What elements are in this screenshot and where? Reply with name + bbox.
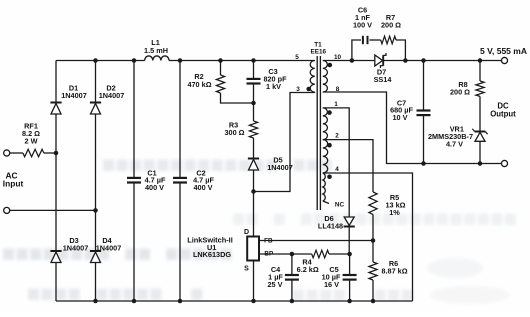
- svg-text:1N4007: 1N4007: [61, 91, 87, 100]
- transformer T1 EE16 label: [310, 41, 326, 55]
- svg-text:470 kΩ: 470 kΩ: [187, 80, 211, 89]
- junction D4 / bottom rail: [93, 299, 98, 304]
- junction C4 / bottom rail: [290, 299, 295, 304]
- svg-text:NC: NC: [335, 202, 345, 209]
- svg-text:Input: Input: [3, 179, 24, 189]
- svg-text:EE16: EE16: [310, 48, 326, 55]
- pin label 1: [334, 101, 338, 108]
- wire AC line to RF1: [10, 152, 23, 154]
- label NC: [335, 202, 345, 209]
- transformer primary winding pins 5-3: [310, 61, 315, 93]
- wire RF1 to bridge node A: [44, 152, 56, 154]
- wire U1 S pin to bottom rail: [253, 261, 255, 302]
- svg-text:5 V, 555 mA: 5 V, 555 mA: [480, 46, 527, 56]
- wire C4 top: [291, 254, 293, 275]
- wire bottom rail: [56, 300, 413, 302]
- primary phasing dot (pin 3 side): [306, 87, 311, 92]
- svg-text:200 Ω: 200 Ω: [450, 88, 470, 97]
- node FB divider (R5/R6): [371, 238, 376, 243]
- node clamp (R2/C3/R3): [251, 101, 256, 106]
- svg-text:1N4007: 1N4007: [99, 91, 125, 100]
- pin label 4: [335, 166, 339, 173]
- junction U1 S / bottom rail: [251, 299, 256, 304]
- winding 4-NC phasing dot: [327, 175, 332, 180]
- svg-text:25 V: 25 V: [267, 280, 282, 289]
- junction C2 / bottom rail: [178, 299, 183, 304]
- inductor L1 1.5 mH: [144, 38, 169, 61]
- wire pin 1 to D6 anode: [323, 108, 349, 217]
- diode D5 1N4007: [248, 155, 293, 172]
- transformer winding pin 4-NC: [323, 173, 325, 201]
- wire clamp node to R3: [253, 103, 255, 121]
- wire D2 cathode to top rail: [95, 61, 97, 102]
- svg-text:1.5 mH: 1.5 mH: [144, 46, 168, 55]
- wire R3 to D5 cathode: [253, 138, 255, 158]
- wire R4 to bias node: [329, 253, 350, 255]
- junction R6 / bottom rail: [371, 299, 376, 304]
- svg-text:400 V: 400 V: [145, 183, 164, 192]
- wire C4 node to R4: [292, 253, 312, 255]
- wire VR1 anode to return rail: [479, 141, 481, 163]
- resistor R5 13 kohm 1%: [369, 192, 406, 217]
- wire R2 top: [220, 61, 222, 76]
- svg-text:S: S: [244, 265, 249, 272]
- junction C3 / top rail: [251, 58, 256, 63]
- svg-text:1%: 1%: [389, 208, 400, 217]
- wire C7 bottom: [423, 115, 425, 163]
- bias winding phasing dot (pin 1 side): [327, 110, 332, 115]
- wire pin 10 to D7 anode: [323, 60, 375, 62]
- svg-text:4.7 V: 4.7 V: [446, 140, 463, 149]
- node A (AC line / D1-D3 junction): [54, 151, 59, 156]
- diode D2 1N4007: [90, 83, 124, 114]
- wire C7 top: [423, 61, 425, 111]
- wire D3 anode to bottom rail: [55, 263, 57, 302]
- wire C1 top: [133, 61, 135, 178]
- output terminal positive: [501, 57, 507, 63]
- wire AC neutral to bridge node B: [10, 209, 96, 211]
- wire U1 BP to C4: [259, 253, 292, 255]
- wire D7 cathode to output+: [384, 60, 502, 62]
- capacitor C6 1 nF 100 V: [353, 5, 372, 44]
- junction C7 / output+ rail: [421, 58, 426, 63]
- wire R8 top: [479, 61, 481, 82]
- wire R5 to FB node: [372, 214, 374, 240]
- svg-text:SS14: SS14: [374, 75, 393, 84]
- wire R8 to VR1 cathode: [479, 96, 481, 130]
- pin label 3: [296, 86, 300, 93]
- wire D5 anode to drain node: [253, 170, 255, 192]
- wire C2 bottom: [179, 183, 181, 302]
- label 5 V 555 mA: [480, 46, 527, 56]
- capacitor C5 10 uF 16 V: [322, 265, 357, 289]
- wire C3 bottom to clamp node: [253, 84, 255, 104]
- resistor R4 6.2 kohm: [297, 250, 329, 274]
- svg-text:LNK613DG: LNK613DG: [193, 250, 231, 259]
- svg-text:8.87 kΩ: 8.87 kΩ: [381, 267, 407, 276]
- wire transformer pin 3 jog to drain node: [254, 93, 315, 192]
- junction C4 / BP wire: [290, 252, 295, 257]
- wire top rail from L1 to transformer pin 5: [169, 60, 315, 62]
- snubber loop wire (right riser): [396, 40, 405, 61]
- svg-text:400 V: 400 V: [193, 183, 212, 192]
- AC input terminal (neutral): [4, 207, 10, 213]
- node drain (D5 / pin3 / U1 D): [251, 189, 256, 194]
- resistor R7 200 ohm: [381, 13, 401, 44]
- pin label 5: [295, 54, 299, 61]
- junction snubber right / D7 cathode wire: [403, 58, 408, 63]
- pin label 8: [336, 86, 340, 93]
- wire R2 bottom to clamp node: [221, 93, 254, 103]
- wire bias node to C5: [349, 254, 351, 275]
- diode D1 1N4007: [50, 83, 86, 114]
- svg-text:1 kV: 1 kV: [266, 82, 281, 91]
- wire pin 4 to bottom rail (right return): [323, 173, 413, 301]
- wire D4 anode to bottom rail: [95, 263, 97, 302]
- svg-text:1N4007: 1N4007: [96, 244, 122, 253]
- node B (AC neutral / D2-D4 junction): [93, 208, 98, 213]
- transformer secondary winding pins 10-8: [323, 61, 328, 93]
- NC stub: [323, 201, 329, 204]
- resistor R6 8.87 kohm: [369, 259, 408, 280]
- diode D7 SS14 schottky: [374, 53, 393, 84]
- svg-text:2 W: 2 W: [25, 137, 38, 146]
- junction R8 / output+ rail: [478, 58, 483, 63]
- wire C3 top: [253, 61, 255, 79]
- label DC Output: [490, 101, 516, 118]
- capacitor C2 4.7 uF 400 V: [173, 169, 214, 192]
- transformer winding pin 2-4: [323, 140, 328, 173]
- wire C2 top: [179, 61, 181, 178]
- output terminal negative: [501, 160, 507, 166]
- svg-text:LL4148: LL4148: [318, 221, 343, 230]
- wire D1 anode down through node A to D3 cathode: [55, 114, 57, 250]
- svg-text:200 Ω: 200 Ω: [381, 20, 401, 29]
- wire pin 2 to R5 (crosses pin-4 wire): [323, 140, 373, 192]
- wire top rail from D1 to L1: [56, 60, 145, 62]
- transformer bias winding pin 1-2: [323, 108, 328, 140]
- svg-text:100 V: 100 V: [353, 20, 372, 29]
- junction C1 / bottom rail: [132, 299, 137, 304]
- secondary phasing dot (pin 10 side): [328, 63, 333, 68]
- diode D3 1N4007: [50, 236, 88, 263]
- resistor R8 200 ohm: [450, 80, 484, 97]
- svg-text:T1: T1: [314, 41, 322, 48]
- svg-text:2: 2: [335, 133, 339, 140]
- svg-text:300 Ω: 300 Ω: [224, 128, 244, 137]
- wire D2 anode down through node B to D4 cathode: [95, 114, 97, 250]
- svg-text:Output: Output: [490, 110, 516, 119]
- junction snubber left / pin10 wire: [350, 58, 355, 63]
- wire C4 bottom: [291, 280, 293, 301]
- transformer core: [316, 56, 318, 210]
- wire C6 to R7: [369, 39, 380, 41]
- wire D1 cathode to top rail: [55, 61, 57, 102]
- capacitor C3 820 pF 1 kV: [247, 67, 288, 91]
- resistor R2 470 kohm: [187, 72, 224, 93]
- junction VR1 / return rail: [478, 161, 483, 166]
- pin label 2: [335, 133, 339, 140]
- svg-text:D: D: [244, 229, 249, 236]
- junction C7 / return rail: [421, 161, 426, 166]
- junction C1 / top rail: [132, 58, 137, 63]
- AC input terminal (line): [4, 150, 10, 156]
- svg-text:3: 3: [296, 86, 300, 93]
- svg-text:1N4007: 1N4007: [63, 244, 89, 253]
- junction R2 / top rail: [218, 58, 223, 63]
- wire R6 to bottom rail: [372, 280, 374, 301]
- svg-text:10 V: 10 V: [392, 113, 407, 122]
- wire C1 bottom: [133, 183, 135, 302]
- wire drain node to U1 D pin: [253, 192, 255, 237]
- wire C5 bottom: [349, 280, 351, 301]
- junction D2 / top rail: [93, 58, 98, 63]
- svg-text:4: 4: [335, 166, 339, 173]
- diode D4 1N4007: [90, 236, 121, 263]
- svg-text:16 V: 16 V: [324, 280, 339, 289]
- wire D6 cathode to bias node (crosses FB wire): [348, 227, 350, 255]
- winding 2-4 phasing dot: [327, 143, 332, 148]
- capacitor C4 1 uF 25 V: [267, 265, 298, 289]
- op-amp U1 LinkSwitch-II LNK613DG: [187, 229, 273, 272]
- pin label 10: [334, 54, 342, 61]
- junction C2 / top rail: [178, 58, 183, 63]
- wire FB node to R6: [372, 241, 374, 263]
- zener diode VR1 2MMS230B-7 4.7 V: [428, 125, 488, 149]
- svg-text:5: 5: [295, 54, 299, 61]
- node bias (D6/C5/R4): [347, 252, 352, 257]
- snubber loop wire (left riser and top): [352, 40, 361, 61]
- wire pin 8 to return rail: [323, 92, 502, 164]
- svg-text:6.2 kΩ: 6.2 kΩ: [297, 265, 319, 274]
- junction C5 / bottom rail: [347, 299, 352, 304]
- svg-text:1N4007: 1N4007: [267, 163, 293, 172]
- capacitor C7 680 uF 10 V: [390, 98, 430, 121]
- capacitor C1 4.7 uF 400 V: [127, 169, 166, 192]
- label AC Input: [3, 171, 24, 189]
- wire U1 FB to divider node: [259, 240, 373, 242]
- svg-text:1: 1: [334, 101, 338, 108]
- svg-text:10: 10: [334, 54, 342, 61]
- resistor R3 300 ohm: [224, 120, 257, 138]
- resistor RF1 8.2 ohm 2 W: [22, 122, 44, 157]
- diode D6 LL4148: [318, 214, 355, 231]
